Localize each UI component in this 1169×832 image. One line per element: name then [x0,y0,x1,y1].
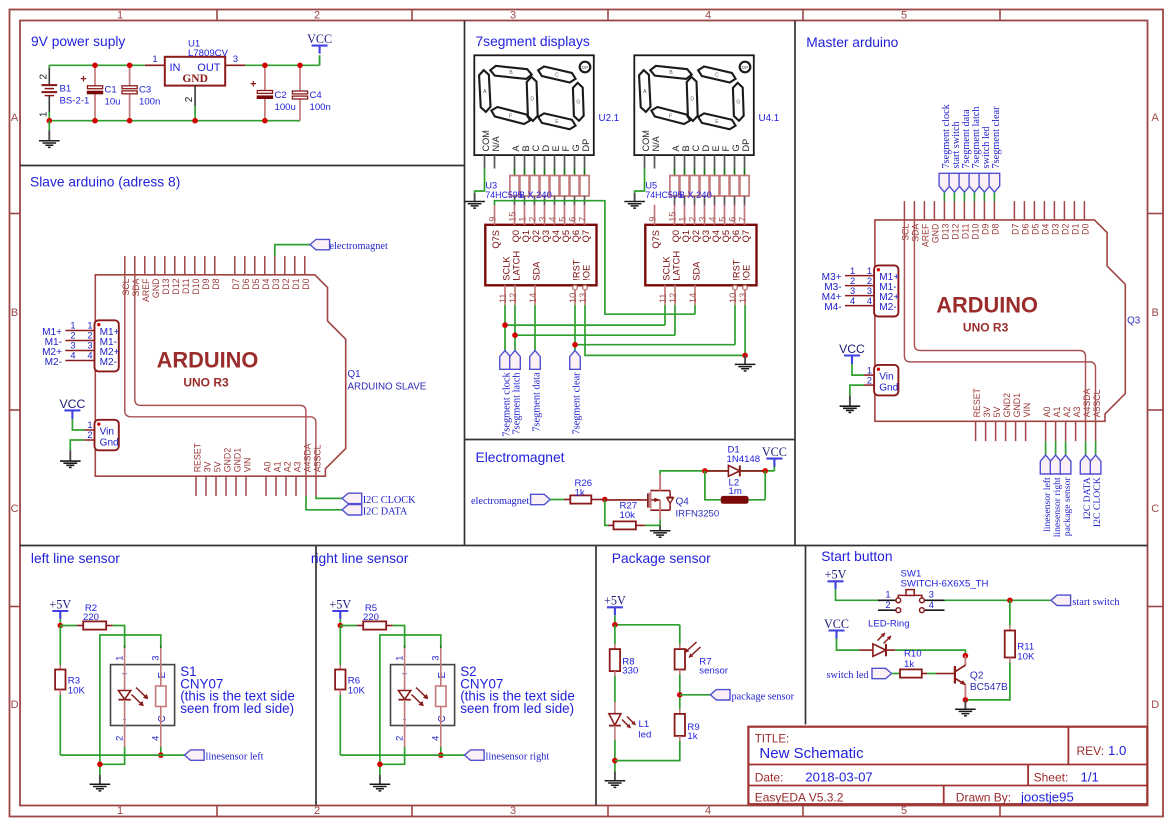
svg-text:BC547B: BC547B [970,682,1008,693]
wire I2C DATA from A4SDA [306,496,342,510]
svg-text:U3: U3 [485,181,497,191]
svg-text:Q6: Q6 [731,230,741,242]
svg-text:IN: IN [170,62,181,74]
chip pin 2 Q2 [694,205,696,225]
svg-text:Q1: Q1 [521,230,531,242]
wire node to flag [680,694,711,696]
svg-text:left line sensor: left line sensor [31,551,120,566]
svg-text:switch led: switch led [827,670,870,681]
svg-text:3: 3 [233,53,238,64]
resistor R26 1k [564,499,570,501]
svg-text:1: 1 [678,217,688,222]
svg-text:74HC595: 74HC595 [645,190,682,200]
svg-text:electromagnet: electromagnet [471,496,529,507]
svg-text:TITLE:: TITLE: [755,734,790,746]
ground [379,775,381,784]
net flag linesensor right [465,750,485,760]
svg-text:A: A [1152,112,1160,124]
wire +5V rail [615,615,680,644]
svg-text:Q6: Q6 [571,230,581,242]
svg-text:5: 5 [901,9,907,21]
svg-text:G: G [571,144,581,151]
svg-text:U2.1: U2.1 [599,113,620,124]
svg-text:seen from led side): seen from led side) [180,701,294,716]
svg-text:3: 3 [151,656,161,661]
wire cathode to ground [380,747,405,764]
resistor R2 220 [60,625,77,627]
svg-text:2: 2 [394,736,404,741]
svg-text:package sensor: package sensor [732,691,795,702]
chip pin 14 SDA [694,285,696,305]
net flag switch led [983,192,985,201]
svg-text:B: B [681,145,691,151]
svg-text:4: 4 [151,736,161,741]
svg-text:I2C CLOCK: I2C CLOCK [363,495,416,506]
wire +5V down [59,619,61,626]
net flag linesensor left [1045,441,1047,455]
svg-text:REV:: REV: [1077,744,1105,758]
chip pin 15 Q0 [674,205,676,225]
wire cathode to ground [100,747,125,764]
chip pin 2 Q2 [534,205,536,225]
wire collector to signal rail [440,747,442,755]
svg-text:1k: 1k [904,659,914,670]
net flag 7segment clear [993,192,995,201]
svg-text:A: A [671,145,681,152]
segment D [687,77,698,121]
wire L1 to ground rail [614,740,616,772]
segment D [527,77,538,121]
display pin DP [584,155,586,168]
svg-text:Q2: Q2 [691,230,701,242]
svg-text:sensor: sensor [699,666,729,677]
chip pin 1 Q1 [684,205,686,225]
svg-text:220: 220 [363,612,379,623]
segment B [650,65,692,79]
svg-text:linesensor left: linesensor left [206,752,264,763]
wire VCC to LED [837,639,860,651]
chip pin 7 Q7 [584,205,586,225]
svg-text:1: 1 [394,656,404,661]
svg-text:100u: 100u [275,102,296,113]
svg-text:Q5: Q5 [561,230,571,242]
svg-text:+5V: +5V [329,597,351,611]
chip pin 5 Q5 [724,205,726,225]
svg-text:LATCH: LATCH [672,251,682,281]
svg-text:1k: 1k [575,487,585,498]
svg-text:1: 1 [117,9,123,21]
net flag 7segment clock [943,192,945,201]
svg-text:Q7: Q7 [581,230,591,242]
inductor L2 1m [705,471,721,500]
segment C [697,65,737,83]
ground at COM [474,193,476,202]
svg-text:14: 14 [688,293,698,303]
wire R11 to emitter [965,663,1010,700]
svg-text:2: 2 [114,736,124,741]
svg-text:electromagnet: electromagnet [330,241,388,252]
wire drain rail [660,471,774,474]
svg-text:100n: 100n [139,97,160,108]
svg-text:+5V: +5V [604,594,626,608]
wire 7segment data net [534,305,536,350]
svg-text:C4: C4 [310,90,323,101]
svg-text:Q0: Q0 [671,230,681,242]
svg-text:SCLK: SCLK [662,256,672,281]
svg-text:Q2: Q2 [970,670,984,681]
optocoupler S2 CNY07 [391,665,455,726]
svg-text:M2-: M2- [45,357,62,368]
svg-text:4: 4 [708,217,718,222]
svg-text:EasyEDA V5.3.2: EasyEDA V5.3.2 [755,790,844,804]
svg-text:COM: COM [641,130,651,151]
svg-text:Q4: Q4 [676,497,690,508]
wire +5V down [339,619,341,626]
wire COM to ground [635,169,645,194]
svg-text:7segment clear: 7segment clear [991,106,1002,169]
regulator U1 L7809CV [165,57,225,86]
chip pin 11 SCLK [664,285,666,305]
svg-text:10: 10 [728,293,738,303]
display pin C [534,155,536,168]
chip pin 6 Q6 [734,205,736,225]
svg-text:B1: B1 [60,84,72,95]
svg-text:A: A [511,145,521,152]
svg-text:Q1: Q1 [348,369,361,380]
chip pin 7 Q7 [744,205,746,225]
svg-text:C: C [437,715,448,722]
wire electromagnet from D3 [275,245,310,256]
svg-text:C: C [555,72,559,78]
section divider lines [464,21,466,546]
opto LED [124,665,126,691]
svg-text:10K: 10K [68,686,86,697]
svg-text:F: F [721,146,731,152]
decimal point DP [580,62,591,73]
svg-text:9: 9 [488,217,498,222]
wire R27 to source [645,524,660,526]
svg-text:C: C [715,72,719,78]
svg-text:Master arduino: Master arduino [806,35,898,50]
svg-text:+5V: +5V [825,568,847,582]
display U2.1 with chip U3 [474,55,594,155]
chip pin 5 Q5 [564,205,566,225]
chip pin 14 SDA [534,285,536,305]
wire emitter to ground [100,635,161,775]
svg-text:M4-: M4- [824,302,841,313]
svg-text:10k: 10k [620,510,636,521]
net flag linesensor left [185,750,205,760]
segment E [697,112,737,130]
net flag start switch [953,192,955,201]
svg-text:330: 330 [622,666,638,677]
display pin N/A [494,155,496,168]
svg-text:A: A [11,112,19,124]
chip pin 3 Q3 [544,205,546,225]
svg-text:F: F [669,113,672,119]
svg-text:1N4148: 1N4148 [727,454,761,465]
wire LED to collector [895,650,965,656]
display pin A [674,155,676,168]
svg-text:DP: DP [581,139,591,152]
wire source to ground [659,519,661,525]
svg-text:8 X 240: 8 X 240 [520,189,552,200]
svg-text:D: D [1151,699,1159,711]
svg-text:13: 13 [738,293,748,303]
wire R2 to opto pin1 [113,626,125,646]
display body [474,55,594,155]
segment B [490,65,532,79]
svg-text:I2C DATA: I2C DATA [363,506,408,517]
svg-text:B: B [521,145,531,151]
wire top rail [49,55,319,65]
transistor Q4 IRFN3250 mosfet [605,499,648,501]
resistor R8 330 [614,625,616,644]
display pin E [714,155,716,168]
LED L1 [614,702,616,714]
display pin D [544,155,546,168]
+5V power flag start [828,581,844,589]
svg-text:N/A: N/A [491,135,501,151]
svg-text:6: 6 [728,217,738,222]
wire 7segment clear net [575,305,735,350]
net flag I2C CLOCK [342,493,362,503]
resistor R9 1k [679,709,681,714]
ground at Q4 source [659,525,661,530]
capacitor C4 100n [299,65,301,91]
svg-text:11: 11 [658,293,668,303]
VCC power flag start [829,631,845,639]
wire !OE net to ground [585,305,745,355]
svg-text:13: 13 [578,293,588,303]
svg-text:DP: DP [582,65,588,70]
svg-text:F: F [561,146,571,152]
svg-text:G: G [736,100,740,106]
L1 light arrows [622,720,631,729]
display pin COM [484,155,486,168]
svg-text:Q5: Q5 [721,230,731,242]
svg-text:3: 3 [510,805,516,817]
svg-text:3: 3 [510,9,516,21]
svg-text:10: 10 [568,293,578,303]
svg-text:74HC595: 74HC595 [485,190,522,200]
svg-text:12: 12 [508,293,518,303]
segment A [639,70,651,112]
svg-text:SWITCH-6X6X5_TH: SWITCH-6X6X5_TH [901,579,989,590]
resistor array 8 X 240 [514,169,516,176]
segment F [490,106,531,126]
svg-text:8 X 240: 8 X 240 [680,189,712,200]
svg-text:7segment clear: 7segment clear [572,372,583,435]
svg-text:1.0: 1.0 [1108,743,1126,758]
pin 3 of U1 [225,64,245,66]
svg-text:9V power suply: 9V power suply [31,34,125,49]
svg-text:Package sensor: Package sensor [612,551,711,566]
display pin B [524,155,526,168]
svg-text:2: 2 [39,74,50,80]
pin 2 GND of U1 [194,86,196,106]
display body [634,55,754,155]
svg-text:+: + [250,78,256,90]
svg-text:Q3: Q3 [701,230,711,242]
svg-text:1m: 1m [729,486,742,497]
svg-text:!RST: !RST [572,259,582,280]
capacitor C2 100u [264,65,266,90]
svg-text:10K: 10K [1017,652,1035,663]
svg-text:L7809CV: L7809CV [188,48,229,59]
svg-text:4: 4 [431,736,441,741]
svg-text:10u: 10u [105,97,121,108]
net flag I2C DATA [1085,441,1087,455]
display pin DP [744,155,746,168]
svg-text:joostje95: joostje95 [1020,789,1074,804]
svg-text:C3: C3 [139,85,151,96]
svg-text:220: 220 [83,612,99,623]
svg-text:E: E [437,671,448,678]
svg-text:1: 1 [39,111,50,117]
svg-text:4: 4 [929,600,934,610]
svg-text:Q2: Q2 [531,230,541,242]
svg-text:3: 3 [538,217,548,222]
ground [99,775,101,784]
svg-text:D: D [11,699,19,711]
svg-text:12: 12 [668,293,678,303]
display pin COM [644,155,646,168]
resistor R6 10K [339,626,341,666]
+5V power flag package [607,607,623,615]
wire collector to signal rail [160,747,162,755]
opto LED [404,665,406,691]
svg-text:2: 2 [688,217,698,222]
net flag 7segment data [963,192,965,201]
svg-text:OUT: OUT [197,62,221,74]
net flag 7segment clear [570,350,581,369]
net flag start switch [1051,595,1071,605]
svg-text:N/A: N/A [651,135,661,151]
net flag I2C DATA [342,505,362,515]
net flag 7segment latch [973,192,975,201]
svg-text:start switch: start switch [1072,597,1120,608]
display pin F [724,155,726,168]
resistor R5 220 [340,625,357,627]
shift register chip 74HC595 [485,225,596,285]
svg-text:Q1: Q1 [681,230,691,242]
chip pin 3 Q3 [704,205,706,225]
wire R9 to ground rail [615,741,680,761]
svg-text:LATCH: LATCH [512,251,522,281]
chip pin 12 LATCH [674,285,676,305]
svg-text:DP: DP [741,139,751,152]
svg-text:E: E [551,145,561,151]
opto light arrows [136,688,148,699]
svg-text:SDA: SDA [532,261,542,281]
signal rail [340,754,464,756]
svg-text:New Schematic: New Schematic [759,745,864,762]
svg-text:7: 7 [738,217,748,222]
svg-text:B: B [11,307,18,319]
VCC power flag electromagnet [773,463,775,471]
net flag electromagnet [310,239,330,249]
ground at Q2 [964,700,966,709]
svg-text:2: 2 [885,600,890,610]
svg-text:6: 6 [568,217,578,222]
ground at COM [634,193,636,202]
wire +5V to switch [836,589,879,600]
svg-text:9: 9 [648,217,658,222]
svg-text:C: C [1151,503,1159,515]
node gate junction [602,497,608,503]
svg-text:!OE: !OE [582,265,592,281]
segment C [537,65,577,83]
svg-text:10K: 10K [348,686,366,697]
wire switch to start switch flag [945,599,1052,601]
wire bottom rail [49,65,300,120]
svg-text:3: 3 [431,656,441,661]
svg-text:14: 14 [528,293,538,303]
+5V power flag [52,611,68,619]
display pin B [684,155,686,168]
capacitor C3 100n [129,65,131,86]
chip pin 12 LATCH [514,285,516,305]
display pin G [574,155,576,168]
svg-text:right line sensor: right line sensor [311,551,409,566]
svg-text:BS-2-1: BS-2-1 [60,96,90,107]
svg-text:4: 4 [705,9,711,21]
svg-text:7segment displays: 7segment displays [476,34,590,49]
svg-text:7: 7 [578,217,588,222]
segment A [479,70,491,112]
svg-text:VCC: VCC [307,32,332,46]
svg-text:linesensor right: linesensor right [486,752,550,763]
sensor R7 [679,645,681,650]
net flag I2C CLOCK [1095,441,1097,455]
+5V power flag [332,611,348,619]
svg-text:E: E [157,671,168,678]
resistor R11 10K [1009,600,1011,626]
net flag linesensor right [1055,441,1057,455]
display pin G [734,155,736,168]
svg-text:+5V: +5V [49,597,71,611]
svg-text:C2: C2 [275,90,287,101]
pin 1 of U1 [145,64,165,66]
svg-text:Q7S: Q7S [651,230,661,249]
svg-text:C: C [157,715,168,722]
svg-text:+: + [80,74,86,86]
svg-text:COM: COM [481,130,491,151]
svg-text:C: C [531,145,541,152]
chip pin 10 !RST [574,285,576,305]
svg-text:Q4: Q4 [551,230,561,242]
chip pin 11 SCLK [504,285,506,305]
svg-text:package sensor: package sensor [1062,477,1073,537]
chip pin 1 Q1 [524,205,526,225]
svg-text:GND: GND [182,73,208,85]
svg-text:VCC: VCC [762,445,787,459]
net flag package sensor [1065,441,1067,455]
svg-text:I2C CLOCK: I2C CLOCK [1092,477,1103,527]
arduino Q1 ARDUINO SLAVE [60,256,346,496]
svg-text:Sheet:: Sheet: [1034,770,1069,784]
svg-text:!OE: !OE [742,265,752,281]
capacitor C1 10u [94,65,96,86]
chip pin 9 Q7S [654,205,656,225]
svg-text:11: 11 [498,293,508,303]
svg-text:C: C [11,503,19,515]
svg-text:15: 15 [508,212,518,222]
wire R7 to R9 node [679,675,681,710]
svg-text:2: 2 [528,217,538,222]
svg-text:Q3: Q3 [1127,316,1141,327]
